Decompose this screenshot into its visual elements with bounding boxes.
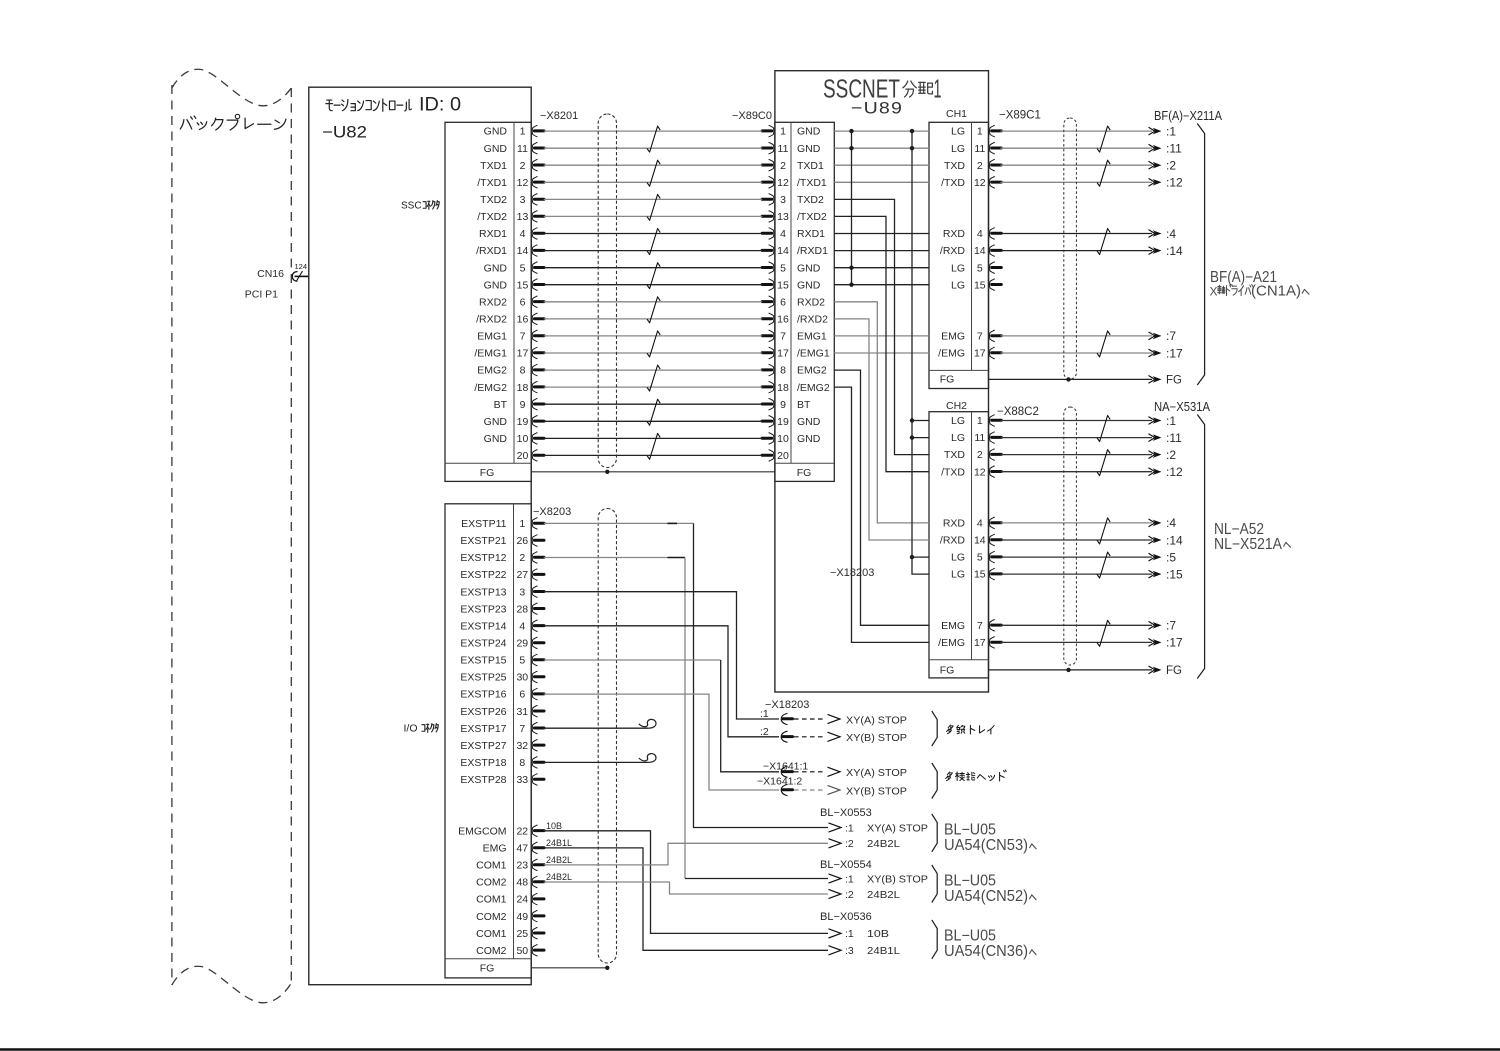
svg-text:X: X [1210, 285, 1218, 299]
svg-text:RXD: RXD [943, 518, 966, 530]
svg-text:/TXD: /TXD [941, 177, 965, 189]
svg-text:BL−U05: BL−U05 [944, 873, 996, 890]
svg-text::14: :14 [1166, 533, 1183, 547]
svg-text:FG: FG [1166, 374, 1182, 386]
svg-text:BF(A)−X211A: BF(A)−X211A [1154, 109, 1223, 123]
svg-text:TXD: TXD [944, 160, 965, 172]
svg-text:18: 18 [777, 382, 789, 394]
svg-text:EXSTP12: EXSTP12 [460, 552, 506, 564]
svg-text:15: 15 [974, 279, 986, 291]
svg-text::2: :2 [845, 838, 854, 850]
svg-text::14: :14 [1166, 244, 1183, 258]
svg-text:(CN1A): (CN1A) [1251, 283, 1301, 300]
svg-text:UA54(CN36): UA54(CN36) [944, 943, 1028, 960]
svg-text:−X8201: −X8201 [540, 110, 578, 122]
svg-text:/RXD: /RXD [940, 535, 966, 547]
svg-text:GND: GND [484, 126, 508, 138]
svg-text:/RXD2: /RXD2 [797, 314, 828, 326]
svg-text:XY(A) STOP: XY(A) STOP [846, 714, 907, 726]
svg-text:EMG1: EMG1 [477, 331, 507, 343]
svg-text:GND: GND [484, 433, 508, 445]
svg-text:7: 7 [519, 723, 525, 735]
svg-text:−X89C0: −X89C0 [732, 110, 772, 122]
svg-text:11: 11 [778, 143, 789, 155]
svg-text:ID: 0: ID: 0 [419, 95, 461, 116]
svg-text:CH2: CH2 [946, 400, 967, 412]
svg-text::15: :15 [1166, 567, 1183, 581]
svg-text:−X88C2: −X88C2 [997, 406, 1039, 418]
svg-text:7: 7 [520, 331, 526, 343]
svg-text:1: 1 [977, 126, 983, 138]
svg-text:49: 49 [516, 911, 528, 923]
svg-text:FG: FG [1166, 665, 1182, 677]
svg-text:−X1641:2: −X1641:2 [757, 776, 802, 788]
svg-text:/TXD2: /TXD2 [797, 211, 827, 223]
svg-text:EMG: EMG [483, 843, 507, 855]
svg-text:47: 47 [516, 843, 528, 855]
svg-text:19: 19 [777, 416, 789, 428]
svg-text:4: 4 [977, 228, 983, 240]
svg-text:/TXD1: /TXD1 [797, 177, 827, 189]
svg-text:4: 4 [520, 228, 526, 240]
svg-text::5: :5 [1166, 550, 1176, 564]
svg-text:24: 24 [516, 894, 528, 906]
svg-text:/EMG: /EMG [938, 637, 965, 649]
svg-text:4: 4 [780, 228, 786, 240]
svg-text:3: 3 [519, 586, 525, 598]
svg-text::11: :11 [1166, 431, 1182, 445]
svg-text:124: 124 [295, 262, 308, 271]
svg-text::3: :3 [845, 945, 854, 957]
svg-text:32: 32 [516, 740, 528, 752]
svg-text:EXSTP11: EXSTP11 [461, 518, 506, 530]
svg-text:GND: GND [484, 416, 508, 428]
svg-text:30: 30 [516, 672, 528, 684]
svg-text:1: 1 [977, 415, 983, 427]
svg-text::2: :2 [1166, 448, 1176, 462]
svg-text:/RXD2: /RXD2 [476, 314, 507, 326]
svg-text:12: 12 [974, 177, 986, 189]
svg-text::1: :1 [845, 873, 854, 885]
svg-text:24B2L: 24B2L [867, 838, 900, 850]
svg-text:3: 3 [520, 194, 526, 206]
svg-text:EMGCOM: EMGCOM [458, 825, 506, 837]
svg-text:EMG1: EMG1 [797, 331, 827, 343]
svg-text:UA54(CN52): UA54(CN52) [944, 888, 1028, 905]
svg-text:12: 12 [974, 466, 986, 478]
svg-text:11: 11 [974, 432, 985, 444]
svg-text::2: :2 [845, 889, 854, 901]
svg-text::1: :1 [1166, 124, 1176, 138]
svg-text::4: :4 [1166, 227, 1176, 241]
svg-text:TXD2: TXD2 [480, 194, 507, 206]
svg-text:I/O: I/O [404, 723, 418, 735]
svg-text:−X8203: −X8203 [533, 506, 571, 518]
svg-text::17: :17 [1166, 636, 1183, 650]
svg-text:FG: FG [480, 963, 495, 975]
svg-text:−U89: −U89 [851, 99, 903, 118]
svg-text:GND: GND [797, 262, 821, 274]
svg-text:BL−X0553: BL−X0553 [820, 807, 872, 819]
svg-text:NA−X531A: NA−X531A [1154, 400, 1211, 414]
svg-text:EXSTP23: EXSTP23 [460, 603, 506, 615]
svg-text:EMG2: EMG2 [797, 365, 827, 377]
svg-text::11: :11 [1166, 142, 1182, 156]
svg-text:31: 31 [516, 706, 528, 718]
svg-text:24B2L: 24B2L [546, 872, 572, 882]
svg-text:LG: LG [951, 432, 965, 444]
svg-text::12: :12 [1166, 176, 1183, 190]
svg-text::7: :7 [1166, 329, 1176, 343]
svg-text:GND: GND [484, 279, 508, 291]
svg-text:GND: GND [797, 433, 821, 445]
svg-text:15: 15 [974, 569, 986, 581]
svg-text:29: 29 [516, 638, 528, 650]
svg-text:1: 1 [934, 76, 942, 104]
svg-text:15: 15 [517, 279, 529, 291]
svg-text:12: 12 [517, 177, 529, 189]
svg-text:5: 5 [780, 262, 786, 274]
svg-text:/RXD1: /RXD1 [476, 245, 507, 257]
svg-text:GND: GND [797, 416, 821, 428]
svg-text:6: 6 [519, 689, 525, 701]
svg-text:7: 7 [977, 620, 983, 632]
svg-text:EXSTP27: EXSTP27 [460, 740, 506, 752]
svg-text:EXSTP28: EXSTP28 [460, 774, 506, 786]
svg-text:17: 17 [974, 637, 986, 649]
svg-text:EMG: EMG [941, 331, 965, 343]
svg-text:2: 2 [519, 552, 525, 564]
svg-text:16: 16 [777, 314, 789, 326]
svg-text:/RXD1: /RXD1 [797, 245, 828, 257]
svg-text:RXD1: RXD1 [479, 228, 507, 240]
svg-text:COM2: COM2 [476, 877, 506, 889]
svg-text:BL−X0536: BL−X0536 [820, 911, 872, 923]
svg-text:/RXD: /RXD [940, 245, 966, 257]
svg-text:EXSTP22: EXSTP22 [460, 569, 506, 581]
svg-text:FG: FG [797, 467, 812, 479]
svg-text:RXD: RXD [943, 228, 966, 240]
svg-text:UA54(CN53): UA54(CN53) [944, 837, 1028, 854]
svg-text:7: 7 [780, 331, 786, 343]
svg-text:11: 11 [974, 143, 985, 155]
svg-text:4: 4 [977, 518, 983, 530]
svg-text:BT: BT [494, 399, 508, 411]
svg-text:23: 23 [516, 860, 528, 872]
svg-text:GND: GND [797, 279, 821, 291]
svg-text:8: 8 [780, 365, 786, 377]
svg-text:BT: BT [797, 399, 811, 411]
svg-text:TXD1: TXD1 [480, 160, 507, 172]
svg-text::2: :2 [760, 726, 769, 738]
svg-text:BL−X0554: BL−X0554 [820, 859, 872, 871]
svg-text:24B2L: 24B2L [867, 889, 900, 901]
svg-text:/TXD1: /TXD1 [477, 177, 507, 189]
svg-text:10B: 10B [867, 928, 889, 940]
svg-text:CH1: CH1 [946, 108, 967, 120]
svg-text:5: 5 [520, 262, 526, 274]
svg-text:SSC: SSC [401, 201, 422, 212]
svg-text:28: 28 [516, 603, 528, 615]
svg-text:8: 8 [520, 365, 526, 377]
svg-text::17: :17 [1166, 346, 1183, 360]
svg-text:LG: LG [951, 552, 965, 564]
svg-text:LG: LG [951, 143, 965, 155]
svg-text:GND: GND [484, 143, 508, 155]
svg-text:7: 7 [977, 331, 983, 343]
svg-text:24B1L: 24B1L [546, 838, 572, 848]
svg-text:33: 33 [516, 774, 528, 786]
svg-text:/EMG: /EMG [938, 348, 965, 360]
svg-text:25: 25 [516, 928, 528, 940]
svg-text:10: 10 [777, 433, 789, 445]
svg-text:17: 17 [777, 348, 789, 360]
svg-text:1: 1 [780, 126, 786, 138]
svg-text:COM2: COM2 [476, 945, 506, 957]
svg-text:FG: FG [480, 467, 495, 479]
svg-text::1: :1 [845, 822, 854, 834]
svg-text:8: 8 [519, 757, 525, 769]
svg-text:EXSTP24: EXSTP24 [460, 638, 506, 650]
svg-text::12: :12 [1166, 465, 1183, 479]
svg-text:27: 27 [516, 569, 528, 581]
svg-text:XY(B) STOP: XY(B) STOP [846, 785, 907, 797]
svg-text:19: 19 [517, 416, 529, 428]
svg-text:11: 11 [517, 143, 528, 155]
svg-text:RXD1: RXD1 [797, 228, 825, 240]
svg-text:13: 13 [777, 211, 789, 223]
svg-text:2: 2 [977, 160, 983, 172]
svg-text:5: 5 [977, 262, 983, 274]
svg-text:20: 20 [777, 450, 789, 462]
svg-text:/EMG1: /EMG1 [474, 348, 507, 360]
svg-text:XY(B) STOP: XY(B) STOP [846, 732, 907, 744]
svg-text:18: 18 [517, 382, 529, 394]
svg-text:5: 5 [977, 552, 983, 564]
svg-text:EXSTP26: EXSTP26 [460, 706, 506, 718]
svg-text:XY(B) STOP: XY(B) STOP [867, 873, 928, 885]
svg-text:LG: LG [951, 262, 965, 274]
svg-text:13: 13 [517, 211, 529, 223]
svg-text:FG: FG [940, 374, 955, 386]
svg-text:16: 16 [517, 314, 529, 326]
svg-text:6: 6 [780, 296, 786, 308]
svg-text:LG: LG [951, 569, 965, 581]
svg-text:1: 1 [519, 518, 525, 530]
svg-text:LG: LG [951, 415, 965, 427]
svg-text:EXSTP18: EXSTP18 [460, 757, 506, 769]
svg-text:48: 48 [516, 877, 528, 889]
svg-text:17: 17 [517, 348, 529, 360]
svg-text::4: :4 [1166, 516, 1176, 530]
svg-text:EXSTP15: EXSTP15 [460, 655, 506, 667]
svg-text:FG: FG [940, 665, 955, 677]
svg-text:12: 12 [777, 177, 789, 189]
svg-text:14: 14 [974, 245, 986, 257]
svg-text:COM1: COM1 [476, 928, 506, 940]
svg-text:EXSTP25: EXSTP25 [460, 672, 506, 684]
svg-text:BL−U05: BL−U05 [944, 927, 996, 944]
svg-text:GND: GND [797, 143, 821, 155]
svg-text::7: :7 [1166, 619, 1176, 633]
svg-text:/EMG2: /EMG2 [797, 382, 830, 394]
svg-text:TXD: TXD [944, 449, 965, 461]
svg-text:2: 2 [780, 160, 786, 172]
svg-text:24B1L: 24B1L [867, 945, 900, 957]
svg-text:3: 3 [780, 194, 786, 206]
svg-text:/EMG1: /EMG1 [797, 348, 830, 360]
svg-text:GND: GND [484, 262, 508, 274]
svg-text:26: 26 [516, 535, 528, 547]
svg-text:COM1: COM1 [476, 860, 506, 872]
svg-text:EXSTP16: EXSTP16 [460, 689, 506, 701]
svg-text:EMG: EMG [941, 620, 965, 632]
svg-text:EMG2: EMG2 [477, 365, 507, 377]
svg-text:PCI P1: PCI P1 [245, 289, 278, 301]
svg-text:6: 6 [520, 296, 526, 308]
svg-text:17: 17 [974, 348, 986, 360]
svg-text::2: :2 [1166, 159, 1176, 173]
svg-text:RXD2: RXD2 [797, 296, 825, 308]
svg-text:14: 14 [517, 245, 529, 257]
svg-text:COM2: COM2 [476, 911, 506, 923]
svg-text:NL−X521A: NL−X521A [1214, 536, 1283, 553]
svg-text:14: 14 [777, 245, 789, 257]
svg-text:5: 5 [519, 655, 525, 667]
svg-text:20: 20 [517, 450, 529, 462]
svg-text:9: 9 [780, 399, 786, 411]
svg-text:−X18203: −X18203 [830, 567, 874, 579]
svg-text:2: 2 [977, 449, 983, 461]
svg-text:/TXD: /TXD [941, 466, 965, 478]
svg-text:10B: 10B [546, 821, 562, 831]
svg-text:TXD2: TXD2 [797, 194, 824, 206]
svg-text:LG: LG [951, 126, 965, 138]
svg-text:RXD2: RXD2 [479, 296, 507, 308]
svg-text:22: 22 [516, 825, 528, 837]
svg-text:9: 9 [520, 399, 526, 411]
svg-text:COM1: COM1 [476, 894, 506, 906]
svg-text:−X89C1: −X89C1 [999, 109, 1041, 121]
svg-text:50: 50 [516, 945, 528, 957]
svg-text:10: 10 [517, 433, 529, 445]
svg-text::1: :1 [760, 708, 769, 720]
svg-text:XY(A) STOP: XY(A) STOP [867, 822, 928, 834]
svg-text:1: 1 [520, 126, 526, 138]
svg-text:TXD1: TXD1 [797, 160, 824, 172]
svg-text:EXSTP21: EXSTP21 [460, 535, 506, 547]
svg-text:/EMG2: /EMG2 [474, 382, 507, 394]
svg-text:−X18203: −X18203 [765, 699, 809, 711]
svg-text::1: :1 [845, 928, 854, 940]
svg-text:EXSTP13: EXSTP13 [460, 586, 506, 598]
svg-text:EXSTP14: EXSTP14 [460, 620, 506, 632]
svg-text:−U82: −U82 [322, 124, 367, 142]
svg-text:LG: LG [951, 279, 965, 291]
svg-text:4: 4 [519, 620, 525, 632]
svg-text:GND: GND [797, 126, 821, 138]
svg-text:EXSTP17: EXSTP17 [460, 723, 506, 735]
svg-text:14: 14 [974, 535, 986, 547]
svg-text:24B2L: 24B2L [546, 855, 572, 865]
svg-text:XY(A) STOP: XY(A) STOP [846, 767, 907, 779]
svg-text:/TXD2: /TXD2 [477, 211, 507, 223]
svg-text:BL−U05: BL−U05 [944, 822, 996, 839]
svg-text:CN16: CN16 [257, 268, 284, 280]
svg-text:15: 15 [777, 279, 789, 291]
svg-text::1: :1 [1166, 414, 1176, 428]
svg-text:2: 2 [520, 160, 526, 172]
